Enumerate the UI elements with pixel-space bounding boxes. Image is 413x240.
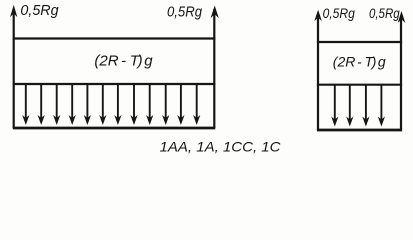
svg-text:0,5Rg: 0,5Rg [369,6,400,21]
svg-text:0,5Rg: 0,5Rg [20,3,58,19]
svg-text:0,5Rg: 0,5Rg [323,6,356,21]
svg-text:(2R-T)g: (2R-T)g [333,53,386,69]
svg-text:(2R-T)g: (2R-T)g [94,52,153,69]
svg-text:1AA, 1A, 1CC, 1C: 1AA, 1A, 1CC, 1C [160,138,282,154]
svg-text:0,5Rg: 0,5Rg [167,4,202,20]
